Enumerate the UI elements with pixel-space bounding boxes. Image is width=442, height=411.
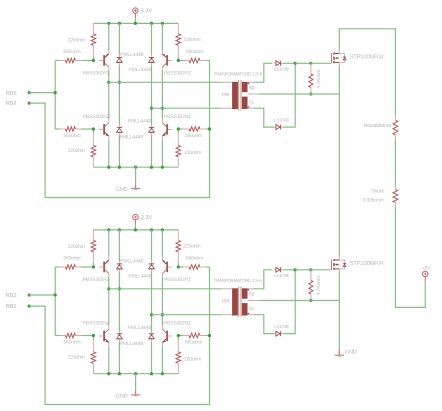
transistor PBSS302PZ top-left block 2 (103, 262, 105, 273)
svg-text:3.3V: 3.3V (141, 8, 153, 15)
svg-text:PBSS302NZ: PBSS302NZ (164, 320, 191, 326)
svg-text:LS103B: LS103B (274, 324, 289, 329)
junction base top-right block 1 (177, 59, 180, 62)
diode LS103B lower block 1 (274, 126, 276, 128)
wire upper diode to gate node block 1 (283, 62, 295, 64)
pin RB4 stub (28, 102, 31, 105)
junction gate node / rectifier block 1 (294, 62, 297, 65)
svg-text:PMLL4448: PMLL4448 (120, 259, 143, 265)
svg-text:LS103B: LS103B (274, 67, 289, 72)
svg-text:S1: S1 (249, 100, 255, 105)
junction node A / Q1-Q3 block 2 (107, 287, 110, 290)
svg-text:220ohm: 220ohm (68, 244, 85, 250)
junction gnd rail / Q4 block 2 (161, 372, 164, 375)
resistor 220ohm pull-down right block 2 (177, 340, 179, 352)
wire D2 to node B block 2 (151, 272, 153, 315)
svg-text:RB2: RB2 (6, 303, 17, 310)
svg-text:PBSS302PZ: PBSS302PZ (164, 71, 191, 77)
diode LS103B upper block 2 (274, 269, 276, 271)
junction base top-left block 2 (92, 265, 95, 268)
wire GND stem FET2 (338, 348, 340, 354)
pin RB3 stub (28, 293, 31, 296)
wire FET1 source to FET2 drain (338, 94, 340, 256)
resistor 560ohm base top-left block 1 (55, 60, 59, 62)
junction node B / Q2-Q4 block 1 (161, 107, 164, 110)
junction 3.3V rail / D1 block 2 (118, 228, 121, 231)
wire lower diode to gate node block 2 (283, 270, 295, 334)
wire Q2 collector to node B block 1 (161, 71, 163, 109)
diode LS103B lower block 2 (274, 333, 276, 335)
svg-text:560ohm: 560ohm (63, 49, 80, 55)
svg-text:PMLL4448: PMLL4448 (128, 118, 151, 124)
supply +3.3V block 2 (133, 214, 138, 219)
resistor 4.7Kohm gate-source block 2 (310, 270, 312, 281)
wire node B to Q4 collector block 2 (161, 315, 163, 326)
svg-text:560ohm: 560ohm (185, 340, 202, 346)
diode PMLL4448 bottom-left block 1 (118, 125, 120, 127)
wire node B to Q4 collector block 1 (161, 108, 163, 119)
wire S1 to rectifier block 2 (254, 315, 275, 334)
svg-text:PMLL4448: PMLL4448 (128, 274, 151, 280)
resistor 220ohm pull-up left block 2 (92, 230, 94, 240)
resistor 220ohm pull-down left block 1 (92, 133, 94, 145)
junction 3.3V rail / D2 block 2 (150, 228, 153, 231)
wire node A to transformer block 2 (109, 288, 221, 290)
wire D4 to node B block 1 (151, 108, 153, 124)
transistor PBSS302NZ bottom-left block 1 (103, 124, 105, 135)
wire D1 to rail block 2 (118, 230, 120, 261)
svg-text:220ohm: 220ohm (68, 354, 85, 360)
junction 3.3V rail / Q2 block 1 (161, 22, 164, 25)
resistor 560ohm base bottom-right block 2 (178, 335, 183, 337)
svg-text:GND: GND (116, 393, 128, 399)
svg-text:GND: GND (116, 187, 128, 193)
svg-text:PBSS302PZ: PBSS302PZ (83, 277, 110, 283)
wire node B to transformer block 2 (152, 314, 222, 316)
wire pull-up right to base node block 2 (177, 263, 179, 267)
wire Q4 emitter to gnd rail block 2 (161, 346, 163, 374)
junction base bottom-left block 2 (92, 334, 95, 337)
junction RB3 / left drive vertical (54, 293, 57, 296)
junction gate node / 4.7K block 1 (309, 62, 312, 65)
junction RB5 / left drive vertical (54, 91, 57, 94)
svg-text:4.7Kohm: 4.7Kohm (316, 70, 322, 89)
diode PMLL4448 top-left block 1 (118, 55, 120, 57)
svg-text:PBSS302PZ: PBSS302PZ (164, 277, 191, 283)
transistor PBSS302NZ bottom-right block 2 (166, 331, 168, 342)
wire D1 to node A block 2 (118, 272, 120, 289)
ground symbol block 1 (135, 183, 137, 189)
junction gnd rail / Q3 block 2 (107, 372, 110, 375)
wire center tap to source block 1 (259, 93, 340, 95)
junction 3.3V rail / D1 block 1 (118, 22, 121, 25)
junction base top-right block 2 (177, 265, 180, 268)
wire lower diode to gate node block 1 (283, 63, 295, 127)
svg-text:PBSS302NZ: PBSS302NZ (83, 114, 110, 120)
wire pull-down right to base node block 2 (177, 336, 179, 340)
svg-text:GND: GND (345, 350, 357, 356)
wire D2 to rail block 2 (151, 230, 153, 261)
wire D4 to gnd rail block 1 (151, 135, 153, 167)
svg-text:PBSS302NZ: PBSS302NZ (164, 114, 191, 120)
junction gnd rail / D4 block 2 (150, 372, 153, 375)
transistor PBSS302NZ bottom-right block 1 (166, 124, 168, 135)
wire pull-up left to base node block 1 (92, 56, 94, 60)
junction 3.3V rail / Q1 block 1 (107, 22, 110, 25)
wire center tap to source block 2 (259, 300, 340, 302)
diode LS103B upper block 1 (274, 62, 276, 64)
wire gate node to resistor block 1 (295, 62, 311, 64)
wire D1 to rail block 1 (118, 23, 120, 54)
wire Q1 collector to node A block 2 (108, 277, 110, 289)
wire Q1 emitter to rail block 1 (108, 23, 110, 50)
diode PMLL4448 top-right block 2 (151, 261, 153, 263)
diode PMLL4448 bottom-right block 1 (151, 125, 153, 127)
wire S2 to rectifier block 1 (254, 63, 273, 82)
svg-text:STP100NF04: STP100NF04 (350, 260, 385, 267)
resistor Shunt 0.005ohm (394, 185, 396, 190)
resistor 560ohm base bottom-right block 1 (178, 128, 183, 130)
wire Q4 emitter to gnd rail block 1 (161, 140, 163, 168)
junction base top-left block 1 (92, 59, 95, 62)
transistor PBSS302PZ top-right block 2 (166, 262, 168, 273)
junction node B / Q2-Q4 block 2 (161, 313, 164, 316)
ground symbol FET2 (338, 350, 340, 356)
pin RB2 stub (28, 305, 31, 308)
junction RB2 / 560ohm bottom-right block 2 (208, 334, 211, 337)
wire D1 to node A block 1 (118, 65, 120, 82)
wire Q3 emitter to gnd rail block 2 (108, 346, 110, 374)
wire gate node to resistor block 2 (295, 269, 311, 271)
wire gnd stem block 2 (135, 374, 137, 390)
junction node A / Q1-Q3 block 1 (107, 81, 110, 84)
svg-text:560ohm: 560ohm (185, 133, 202, 139)
svg-text:220ohm: 220ohm (68, 148, 85, 154)
wire D3 to node A block 1 (118, 82, 120, 124)
resistor Riscaldatore (394, 116, 396, 121)
junction gnd rail / D3 block 1 (118, 166, 121, 169)
junction gnd rail / D4 block 1 (150, 166, 153, 169)
wire node B to transformer block 1 (152, 107, 222, 109)
svg-text:PMLL4448: PMLL4448 (120, 52, 143, 58)
wire D3 to node A block 2 (118, 289, 120, 331)
wire D4 to node B block 2 (151, 315, 153, 331)
resistor 220ohm pull-up right block 2 (177, 230, 179, 240)
wire RB2 to right drive (29, 267, 209, 405)
svg-text:TRASFORMATORE 1:3+5: TRASFORMATORE 1:3+5 (214, 72, 263, 77)
junction node B / D2-D4 block 2 (150, 313, 153, 316)
wire 3.3V stub block 1 (134, 18, 136, 23)
ground symbol block 2 (135, 389, 137, 395)
resistor 560ohm base top-right block 1 (178, 60, 183, 62)
junction 3.3V rail / Q2 block 2 (161, 228, 164, 231)
diode PMLL4448 top-left block 2 (118, 261, 120, 263)
svg-text:560ohm: 560ohm (186, 256, 203, 262)
wire Q3 emitter to gnd rail block 1 (108, 140, 110, 168)
wire FET2 source down (338, 273, 340, 301)
supply +6V (423, 271, 428, 276)
resistor 4.7Kohm gate-source block 1 (310, 63, 312, 74)
wire RB4 to right drive (29, 61, 209, 198)
junction 3.3V rail / supply block 2 (134, 228, 137, 231)
svg-text:0.005ohm: 0.005ohm (363, 197, 384, 203)
svg-text:PBSS302PZ: PBSS302PZ (83, 71, 110, 77)
svg-text:STP100NF04: STP100NF04 (350, 54, 385, 61)
wire gate block 1 (311, 62, 331, 64)
junction 3.3V rail / D2 block 1 (150, 22, 153, 25)
transistor STP100NF04 block 2 (331, 260, 333, 270)
svg-text:S2: S2 (249, 85, 255, 90)
wire gnd stem block 1 (135, 167, 137, 183)
wire S2 to rectifier block 2 (254, 270, 273, 289)
transistor PBSS302PZ top-right block 1 (166, 55, 168, 66)
diode PMLL4448 top-right block 1 (151, 55, 153, 57)
svg-text:TRASFORMATORE 1:3+5: TRASFORMATORE 1:3+5 (214, 278, 263, 283)
wire RB5 to left drive (29, 92, 55, 94)
svg-text:220ohm: 220ohm (68, 38, 85, 44)
wire FET2 source to GND (338, 301, 340, 349)
wire pull-up right to base node block 1 (177, 56, 179, 60)
supply +3.3V block 1 (133, 8, 138, 13)
junction gate node / 4.7K block 2 (309, 268, 312, 271)
svg-text:S1: S1 (249, 306, 255, 311)
svg-text:560ohm: 560ohm (186, 49, 203, 55)
svg-text:3.3V: 3.3V (141, 214, 153, 221)
junction base bottom-right block 2 (177, 334, 180, 337)
svg-text:PRI: PRI (222, 92, 229, 97)
wire D2 to node B block 1 (151, 65, 153, 108)
wire left drive vertical block 2 (54, 267, 56, 336)
resistor 220ohm pull-up right block 1 (177, 23, 179, 33)
svg-text:PMLL4448: PMLL4448 (120, 135, 143, 141)
wire node A to transformer block 1 (109, 81, 221, 83)
junction gnd rail / Q4 block 1 (161, 166, 164, 169)
resistor 560ohm base bottom-left block 2 (55, 335, 59, 337)
wire 3.3V stub block 2 (134, 225, 136, 230)
wire Q1 collector to node A block 1 (108, 71, 110, 83)
diode PMLL4448 bottom-right block 2 (151, 331, 153, 333)
wire gnd rail block 1 (93, 166, 178, 168)
wire FET1 source down (338, 66, 340, 94)
transistor PBSS302NZ bottom-left block 2 (103, 331, 105, 342)
svg-text:S2: S2 (249, 291, 255, 296)
svg-text:Shunt: Shunt (371, 189, 384, 195)
wire 3.3V rail block 2 (93, 229, 178, 231)
resistor 560ohm base bottom-left block 1 (55, 128, 59, 130)
junction gate node / rectifier block 2 (294, 268, 297, 271)
wire FET1 drain to heater loop (339, 29, 395, 116)
svg-text:RB4: RB4 (6, 101, 18, 107)
junction gnd rail / gnd block 1 (134, 166, 137, 169)
transistor STP100NF04 block 1 (331, 53, 333, 63)
wire S1 to rectifier block 1 (254, 108, 275, 127)
wire pull-down right to base node block 1 (177, 129, 179, 133)
svg-text:4.7Kohm: 4.7Kohm (316, 276, 322, 295)
junction node A / D1-D3 block 1 (118, 81, 121, 84)
wire pull-down left to base node block 2 (92, 336, 94, 340)
junction node B / D2-D4 block 1 (150, 107, 153, 110)
junction gnd rail / Q3 block 1 (107, 166, 110, 169)
wire Q2 emitter to rail block 1 (161, 23, 163, 50)
svg-text:LS103B: LS103B (274, 118, 289, 123)
wire node A to Q3 collector block 2 (108, 289, 110, 326)
junction source wire / 4.7K block 1 (309, 92, 312, 95)
svg-text:220ohm: 220ohm (184, 150, 201, 156)
resistor 220ohm pull-down right block 1 (177, 133, 179, 145)
svg-text:PMLL4448: PMLL4448 (128, 325, 151, 331)
svg-text:LS103B: LS103B (274, 273, 289, 278)
svg-text:PRI: PRI (222, 298, 229, 303)
junction 3.3V rail / supply block 1 (134, 22, 137, 25)
wire D3 to gnd rail block 2 (118, 342, 120, 374)
svg-text:PBSS302NZ: PBSS302NZ (83, 320, 110, 326)
wire D3 to gnd rail block 1 (118, 135, 120, 167)
junction gnd rail / gnd block 2 (134, 372, 137, 375)
junction RB4 / 560ohm bottom-right block 1 (208, 127, 211, 130)
svg-text:220ohm: 220ohm (183, 37, 200, 43)
resistor 560ohm base top-left block 2 (55, 266, 59, 268)
resistor 560ohm base top-right block 2 (178, 266, 183, 268)
wire RB3 to left drive (29, 294, 55, 296)
wire D4 to gnd rail block 2 (151, 342, 153, 374)
wire Q1 emitter to rail block 2 (108, 230, 110, 257)
svg-text:PMLL4448: PMLL4448 (120, 341, 143, 347)
wire gnd rail block 2 (93, 373, 178, 375)
wire heater to shunt (394, 139, 396, 184)
svg-text:RB3: RB3 (6, 292, 17, 299)
svg-text:+6V: +6V (422, 265, 431, 270)
transistor PBSS302PZ top-left block 1 (103, 55, 105, 66)
resistor 220ohm pull-down left block 2 (92, 340, 94, 352)
junction source wire / 4.7K block 2 (309, 299, 312, 302)
resistor 220ohm pull-up left block 1 (92, 23, 94, 33)
svg-text:220ohm: 220ohm (183, 244, 200, 250)
wire shunt to +6V (395, 207, 425, 307)
svg-text:PMLL4448: PMLL4448 (128, 67, 151, 73)
junction gnd rail / D3 block 2 (118, 372, 121, 375)
wire Q2 collector to node B block 2 (161, 277, 163, 315)
wire gate block 2 (311, 269, 331, 271)
svg-text:560ohm: 560ohm (63, 133, 80, 139)
wire node A to Q3 collector block 1 (108, 82, 110, 119)
junction base bottom-right block 1 (177, 127, 180, 130)
svg-text:RB5: RB5 (6, 91, 17, 97)
junction node A / D1-D3 block 2 (118, 287, 121, 290)
wire 3.3V rail block 1 (93, 22, 178, 24)
wire D2 to rail block 1 (151, 23, 153, 54)
wire Q2 emitter to rail block 2 (161, 230, 163, 257)
svg-text:Riscaldatore: Riscaldatore (364, 123, 392, 129)
wire upper diode to gate node block 2 (283, 269, 295, 271)
wire pull-down left to base node block 1 (92, 129, 94, 133)
svg-text:560ohm: 560ohm (63, 256, 80, 262)
diode PMLL4448 bottom-left block 2 (118, 331, 120, 333)
svg-text:560ohm: 560ohm (63, 340, 80, 346)
wire pull-up left to base node block 2 (92, 263, 94, 267)
junction base bottom-left block 1 (92, 127, 95, 130)
pin RB5 stub (28, 91, 31, 94)
wire left drive vertical block 1 (54, 61, 56, 130)
svg-text:220ohm: 220ohm (184, 356, 201, 362)
junction 3.3V rail / Q1 block 2 (107, 228, 110, 231)
